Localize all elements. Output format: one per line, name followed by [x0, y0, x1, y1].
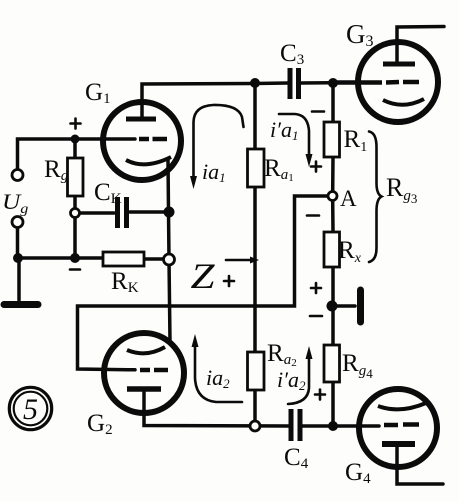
svg-text:Z: Z — [191, 256, 216, 296]
svg-text:A: A — [340, 186, 357, 211]
svg-text:5: 5 — [23, 393, 38, 426]
